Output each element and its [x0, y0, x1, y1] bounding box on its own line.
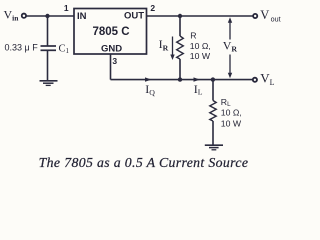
- ground (RL): [205, 145, 223, 150]
- terminal Vin: [22, 14, 26, 18]
- current arrow IL on ground net: [194, 77, 201, 81]
- wire RL upper lead: [212, 80, 214, 101]
- wire ground net horizontal to VL terminal: [111, 79, 253, 81]
- current arrow IQ on ground net: [145, 77, 152, 81]
- svg-text:2: 2: [150, 3, 155, 13]
- current arrow IR: [170, 37, 174, 61]
- wire Vin terminal to regulator IN pin: [26, 15, 74, 17]
- node junction at Vin/C1: [45, 14, 49, 18]
- wire capacitor branch upper: [47, 16, 49, 46]
- wire resistor R lower lead: [179, 59, 181, 80]
- svg-text:10 Ω,: 10 Ω,: [190, 41, 211, 51]
- wire capacitor branch lower: [47, 51, 49, 81]
- wire RL lower lead: [212, 121, 214, 145]
- node junction at OUT/R: [178, 14, 182, 18]
- svg-text:The 7805 as a 0.5 A Current So: The 7805 as a 0.5 A Current Source: [39, 155, 249, 170]
- svg-text:3: 3: [112, 56, 117, 66]
- terminal VL: [253, 78, 257, 82]
- svg-text:OUT: OUT: [124, 11, 144, 22]
- wire resistor R upper lead: [179, 16, 181, 36]
- svg-text:GND: GND: [101, 44, 122, 55]
- svg-text:0.33 μ F: 0.33 μ F: [5, 42, 39, 52]
- node junction at R bottom: [178, 77, 182, 81]
- measurement arrow VR lower: [228, 55, 232, 79]
- svg-text:1: 1: [64, 3, 69, 13]
- svg-text:IN: IN: [77, 11, 87, 22]
- terminal Vout: [253, 14, 257, 18]
- svg-text:7805 C: 7805 C: [92, 26, 129, 38]
- wire OUT pin to Vout terminal: [147, 15, 253, 17]
- resistor R zigzag: [177, 36, 184, 59]
- measurement arrow VR upper: [228, 17, 232, 39]
- wire GND pin 3 vertical: [110, 54, 112, 80]
- svg-text:R: R: [190, 31, 196, 41]
- resistor RL zigzag: [210, 101, 216, 122]
- regulator U1 7805 box: [74, 9, 147, 55]
- capacitor C1: [41, 46, 57, 50]
- node junction at RL top: [211, 77, 215, 81]
- svg-text:10 Ω,: 10 Ω,: [221, 108, 242, 118]
- svg-text:10 W: 10 W: [190, 51, 211, 61]
- svg-text:10 W: 10 W: [221, 119, 242, 129]
- ground (capacitor): [40, 81, 58, 86]
